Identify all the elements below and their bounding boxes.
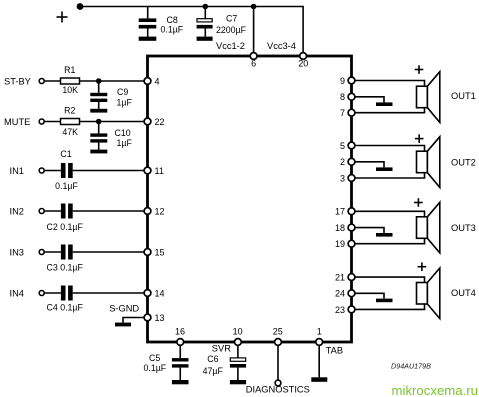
label C9 value: [117, 87, 133, 107]
ground C5: [172, 380, 189, 384]
junction pin-6 drop: [251, 4, 257, 10]
pin 10: [235, 339, 242, 346]
pin 15: [144, 249, 151, 256]
wire IN3 to C3: [44, 251, 61, 253]
label + OUT4: [418, 262, 427, 271]
svg-text:R2: R2: [64, 106, 75, 116]
svg-text:21: 21: [335, 273, 345, 283]
svg-text:17: 17: [335, 207, 345, 217]
speaker OUT2: [417, 137, 440, 188]
svg-text:C3 0.1µF: C3 0.1µF: [47, 263, 84, 273]
capacitor C7 (electrolytic): [197, 7, 213, 37]
svg-text:C10: C10: [115, 128, 131, 138]
svg-text:C6: C6: [207, 354, 218, 364]
svg-text:23: 23: [335, 305, 345, 315]
svg-text:19: 19: [335, 239, 345, 249]
svg-text:MUTE: MUTE: [4, 117, 30, 127]
capacitor C3: [61, 245, 73, 260]
wire pin 24 to ground: [352, 293, 385, 298]
svg-text:3: 3: [340, 173, 345, 183]
svg-text:mikrocxema.ru: mikrocxema.ru: [392, 383, 478, 397]
svg-text:TAB: TAB: [326, 346, 343, 356]
svg-text:OUT4: OUT4: [451, 288, 476, 298]
pin 5: [348, 142, 355, 149]
wire C4 to pin 14: [73, 292, 148, 294]
svg-text:OUT3: OUT3: [451, 223, 476, 233]
pin 16: [177, 339, 184, 346]
capacitor C4: [61, 286, 73, 301]
ground pin 8: [376, 102, 393, 106]
ground TAB: [311, 377, 327, 382]
speaker OUT3: [417, 202, 440, 253]
label C10 value: [115, 128, 133, 148]
svg-text:IN3: IN3: [10, 247, 24, 257]
svg-text:0.1µF: 0.1µF: [144, 363, 167, 373]
pin 7: [348, 109, 355, 116]
ground S-GND: [115, 323, 131, 327]
svg-text:16: 16: [175, 326, 185, 336]
pin 17: [348, 208, 355, 215]
capacitor C10: [90, 122, 107, 150]
pin 3: [348, 175, 355, 182]
svg-text:Vcc1-2: Vcc1-2: [216, 41, 245, 51]
wire C1 to pin 11: [73, 170, 148, 172]
capacitor C2: [61, 204, 73, 219]
svg-text:14: 14: [155, 288, 165, 298]
wire R2 to pin 22: [80, 121, 148, 123]
pin 13: [144, 314, 151, 321]
node +VS supply terminal: [77, 3, 84, 10]
pin 20: [300, 53, 307, 60]
wire pin 13 to ground: [123, 318, 148, 323]
svg-text:R1: R1: [64, 65, 75, 75]
capacitor C5: [172, 344, 189, 380]
pin 11: [144, 167, 151, 174]
svg-text:8: 8: [340, 92, 345, 102]
svg-text:15: 15: [155, 247, 165, 257]
pin 23: [348, 306, 355, 313]
pin 1: [316, 339, 323, 346]
pin 25: [275, 339, 282, 346]
wire MUTE to R2: [44, 121, 60, 123]
wire pin 5 to speaker 2: [352, 146, 425, 152]
svg-text:5: 5: [340, 141, 345, 151]
wire C2 to pin 12: [73, 210, 148, 212]
svg-text:C5: C5: [149, 353, 160, 363]
terminal MUTE: [39, 119, 44, 124]
pin 2: [348, 158, 355, 165]
pin 22: [144, 118, 151, 125]
wire R1 to pin 4: [80, 80, 148, 82]
wire pin 25 to DIAGNOSTICS: [277, 344, 279, 380]
resistor R1: [61, 78, 80, 84]
svg-text:10K: 10K: [62, 85, 78, 95]
pin 19: [348, 240, 355, 247]
svg-text:OUT2: OUT2: [451, 157, 476, 167]
svg-text:S-GND: S-GND: [109, 304, 139, 314]
svg-text:DIAGNOSTICS: DIAGNOSTICS: [246, 385, 310, 395]
wire C3 to pin 15: [73, 251, 148, 253]
wire ST-BY to R1: [44, 80, 60, 82]
terminal IN1: [39, 168, 44, 173]
wire pin 2 to ground: [352, 162, 385, 168]
label + OUT1: [415, 65, 424, 74]
wire pin 3 to speaker 2: [352, 173, 425, 178]
svg-text:9: 9: [340, 76, 345, 86]
svg-text:6: 6: [251, 59, 256, 69]
svg-text:IN1: IN1: [10, 166, 24, 176]
label C7 value: [216, 13, 247, 35]
svg-text:C1: C1: [60, 149, 71, 159]
wire pin 17 to speaker 3: [352, 211, 425, 217]
svg-text:0.1µF: 0.1µF: [55, 181, 78, 191]
svg-text:C9: C9: [117, 87, 128, 97]
svg-text:C4 0.1µF: C4 0.1µF: [47, 303, 84, 313]
svg-text:11: 11: [155, 166, 164, 176]
svg-text:47µF: 47µF: [203, 366, 224, 376]
terminal IN4: [39, 291, 44, 296]
label + supply: [57, 12, 68, 23]
label + OUT3: [414, 198, 423, 207]
svg-text:C7: C7: [226, 13, 237, 23]
svg-text:0.1µF: 0.1µF: [161, 25, 184, 35]
wire pin 1 to ground: [318, 344, 320, 377]
ground C6: [230, 380, 246, 384]
wire IN4 to C4: [44, 292, 61, 294]
terminal IN3: [39, 250, 44, 255]
pin 14: [144, 290, 151, 297]
svg-text:25: 25: [273, 326, 283, 336]
svg-text:OUT1: OUT1: [451, 91, 476, 101]
speaker OUT1: [417, 72, 440, 123]
capacitor C1: [61, 163, 73, 178]
junction C7 top: [203, 4, 209, 10]
capacitor C9: [90, 81, 107, 109]
pin 9: [348, 77, 355, 84]
wire IN1 to C1: [44, 170, 61, 172]
label C5 value: [144, 353, 167, 373]
svg-text:C2 0.1µF: C2 0.1µF: [47, 222, 84, 232]
svg-text:12: 12: [155, 206, 165, 216]
terminal IN2: [39, 209, 44, 214]
ground pin 2: [376, 167, 393, 171]
wire IN2 to C2: [44, 210, 61, 212]
svg-text:22: 22: [155, 117, 165, 127]
svg-text:IN2: IN2: [10, 206, 24, 216]
svg-text:D94AU179B: D94AU179B: [391, 361, 431, 370]
wire pin 21 to speaker 4: [352, 277, 425, 282]
svg-text:7: 7: [340, 108, 345, 118]
wire drop to pin 6: [253, 7, 255, 55]
svg-text:2200µF: 2200µF: [216, 25, 247, 35]
svg-text:18: 18: [335, 223, 345, 233]
terminal DIAGNOSTICS: [275, 380, 281, 386]
pin 18: [348, 224, 355, 231]
junction node MUTE/C10: [96, 119, 102, 125]
wire pin 19 to speaker 3: [352, 238, 425, 243]
wire pin 9 to speaker 1: [352, 81, 425, 87]
pin 6: [250, 53, 257, 60]
svg-text:Vcc3-4: Vcc3-4: [267, 41, 296, 51]
pin 24: [348, 290, 355, 297]
ground pin 18: [376, 233, 393, 237]
capacitor C8: [139, 7, 157, 37]
ground C10: [90, 150, 107, 154]
svg-text:1µF: 1µF: [117, 138, 133, 148]
svg-text:10: 10: [233, 326, 243, 336]
svg-text:1µF: 1µF: [117, 97, 133, 107]
terminal ST-BY: [39, 79, 44, 84]
junction node ST-BY/C9: [96, 78, 102, 84]
wire pin 8 to ground: [352, 97, 385, 103]
label C8 value: [161, 15, 184, 35]
svg-text:13: 13: [155, 313, 165, 323]
svg-text:ST-BY: ST-BY: [4, 76, 31, 86]
IC U1 body: [148, 56, 352, 342]
pin 21: [348, 274, 355, 281]
ground pin 24: [376, 299, 393, 303]
svg-text:SVR: SVR: [212, 344, 231, 354]
resistor R2: [61, 119, 80, 125]
label C6 value: [203, 354, 224, 376]
speaker OUT4: [417, 268, 440, 319]
label + OUT2: [415, 134, 424, 143]
svg-text:IN4: IN4: [10, 288, 24, 298]
svg-text:24: 24: [335, 289, 345, 299]
svg-text:C8: C8: [167, 15, 178, 25]
svg-text:2: 2: [340, 157, 345, 167]
ground C7: [197, 37, 213, 41]
ground C8: [139, 37, 157, 41]
pin 12: [144, 208, 151, 215]
svg-text:47K: 47K: [62, 127, 78, 137]
wire pin 23 to speaker 4: [352, 304, 425, 309]
pin 8: [348, 93, 355, 100]
wire pin 7 to speaker 1: [352, 108, 425, 113]
svg-text:1: 1: [317, 326, 322, 336]
ground C9: [90, 109, 107, 113]
svg-text:20: 20: [298, 59, 308, 69]
pin 4: [144, 78, 151, 85]
wire pin 18 to ground: [352, 228, 385, 233]
capacitor C6 (electrolytic): [230, 344, 246, 380]
svg-text:4: 4: [155, 76, 160, 86]
wire supply rail top: [80, 7, 303, 55]
